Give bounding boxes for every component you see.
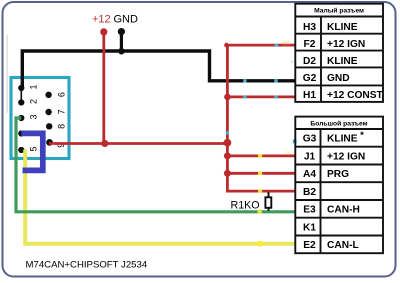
pin 8 bbox=[46, 123, 52, 129]
big connector table bbox=[295, 117, 383, 254]
tick cyan pair on H1 wire bbox=[243, 95, 246, 98]
svg-text:GND: GND bbox=[327, 73, 350, 84]
artifact faint smudge near G3 bbox=[284, 150, 295, 154]
small table signal names bbox=[327, 22, 384, 101]
pin 2 bbox=[18, 99, 24, 105]
svg-text:J1: J1 bbox=[304, 151, 316, 162]
tick yellow on J1 wire bbox=[258, 154, 262, 158]
wire: red distribution rail vertical bbox=[226, 45, 229, 191]
tick yellow on green wire bbox=[258, 209, 262, 213]
svg-text:1: 1 bbox=[28, 84, 38, 89]
faint left artifact line bbox=[6, 35, 8, 113]
svg-text:G2: G2 bbox=[303, 73, 317, 84]
node +12 terminal bbox=[100, 28, 107, 35]
svg-text:B2: B2 bbox=[303, 187, 316, 198]
wire: red to H1 bbox=[226, 96, 296, 99]
pin 1 bbox=[18, 85, 24, 91]
tick yellow on A4 wire bbox=[258, 172, 262, 176]
svg-text:E3: E3 bbox=[303, 205, 316, 216]
svg-text:M74CAN+CHIPSOFT J2534: M74CAN+CHIPSOFT J2534 bbox=[26, 260, 148, 271]
wire: red to A4 bbox=[226, 172, 296, 175]
node red junction rail/H1 bbox=[224, 94, 231, 101]
wire: red to F2 bbox=[226, 44, 296, 47]
tick cyan faint at D2 edge bbox=[291, 61, 293, 63]
pin 9 bbox=[46, 139, 53, 146]
svg-text:E2: E2 bbox=[303, 240, 316, 251]
svg-text:8: 8 bbox=[56, 124, 66, 129]
wire: red to B2 bbox=[226, 190, 296, 193]
svg-text:R1KO: R1KO bbox=[231, 200, 260, 212]
wire: green CAN-H from pin3 to E3 bbox=[16, 118, 295, 212]
big table signal names bbox=[327, 130, 365, 251]
svg-text:G3: G3 bbox=[303, 134, 317, 145]
svg-text:Большой разъем: Большой разъем bbox=[310, 120, 367, 128]
tick yellow on B2 wire bbox=[258, 189, 262, 193]
svg-text:7: 7 bbox=[57, 109, 67, 114]
svg-text:Малый разъем: Малый разъем bbox=[314, 7, 364, 15]
svg-text:A4: A4 bbox=[303, 169, 316, 180]
svg-text:+12 IGN: +12 IGN bbox=[327, 151, 365, 162]
node red junction rail/A4 bbox=[224, 170, 231, 177]
wire: GND black bus from pin1 up, across, down to G2 bbox=[22, 51, 296, 88]
wire: red to J1 bbox=[226, 154, 296, 157]
artifact orange smudge near F2 bbox=[282, 41, 292, 46]
svg-text:H1: H1 bbox=[303, 90, 316, 101]
node red junction at +12/pin9 rail bbox=[101, 140, 108, 147]
resistor R1KO lead bbox=[268, 192, 270, 211]
svg-text:CAN-H: CAN-H bbox=[327, 205, 360, 216]
small table pin labels bbox=[303, 22, 317, 101]
svg-text:+12: +12 bbox=[92, 14, 111, 26]
tick cyan on red rail bbox=[226, 131, 229, 134]
svg-text:+12 IGN: +12 IGN bbox=[327, 39, 365, 50]
svg-text:+12 CONST: +12 CONST bbox=[327, 90, 384, 101]
small connector table bbox=[295, 4, 383, 102]
pin 5 bbox=[18, 147, 24, 153]
svg-text:3: 3 bbox=[28, 114, 38, 119]
wire: pin1-pin2 link bbox=[20, 88, 22, 103]
tick cyan on F2 wire bbox=[275, 44, 278, 47]
pin 7 bbox=[45, 109, 51, 115]
svg-text:H3: H3 bbox=[303, 22, 316, 33]
svg-text:5: 5 bbox=[28, 146, 38, 151]
node red junction rail/F2 bbox=[224, 43, 229, 48]
tick yellow on yellow wire bbox=[257, 241, 264, 246]
big table pin labels bbox=[303, 134, 317, 252]
svg-text:KLINE: KLINE bbox=[327, 56, 358, 67]
node GND terminal bbox=[118, 28, 125, 35]
svg-text:F2: F2 bbox=[304, 39, 316, 50]
tick cyan at G3 edge bbox=[293, 139, 297, 143]
svg-text:PRG: PRG bbox=[327, 169, 349, 180]
svg-text:CAN-L: CAN-L bbox=[327, 240, 359, 251]
svg-text:6: 6 bbox=[57, 92, 67, 97]
node red junction rail/pin9 bbox=[224, 139, 232, 147]
node red junction rail/J1 bbox=[224, 152, 231, 159]
svg-text:D2: D2 bbox=[303, 56, 316, 67]
wire: GND terminal stem bbox=[120, 32, 123, 51]
resistor R1KO body bbox=[265, 197, 271, 208]
wire: yellow CAN-L from pin5 to E2 bbox=[25, 150, 295, 244]
node GND junction bbox=[118, 48, 125, 55]
pin 6 bbox=[45, 92, 51, 98]
wire: +12 red stem down to bus bbox=[102, 32, 105, 144]
svg-text:KLINE: KLINE bbox=[327, 22, 358, 33]
pin 4 bbox=[18, 130, 24, 136]
wire: red from pin9 to distribution rail bbox=[49, 142, 227, 145]
tick cyan pair on G2 wire bbox=[243, 79, 246, 82]
svg-text:GND: GND bbox=[114, 14, 139, 26]
svg-text:K1: K1 bbox=[303, 222, 316, 233]
connector J1 body (teal box) bbox=[11, 78, 69, 159]
svg-text:2: 2 bbox=[28, 99, 38, 104]
pin 3 bbox=[18, 115, 24, 121]
wire: blue stub from pin4 bbox=[21, 133, 43, 170]
